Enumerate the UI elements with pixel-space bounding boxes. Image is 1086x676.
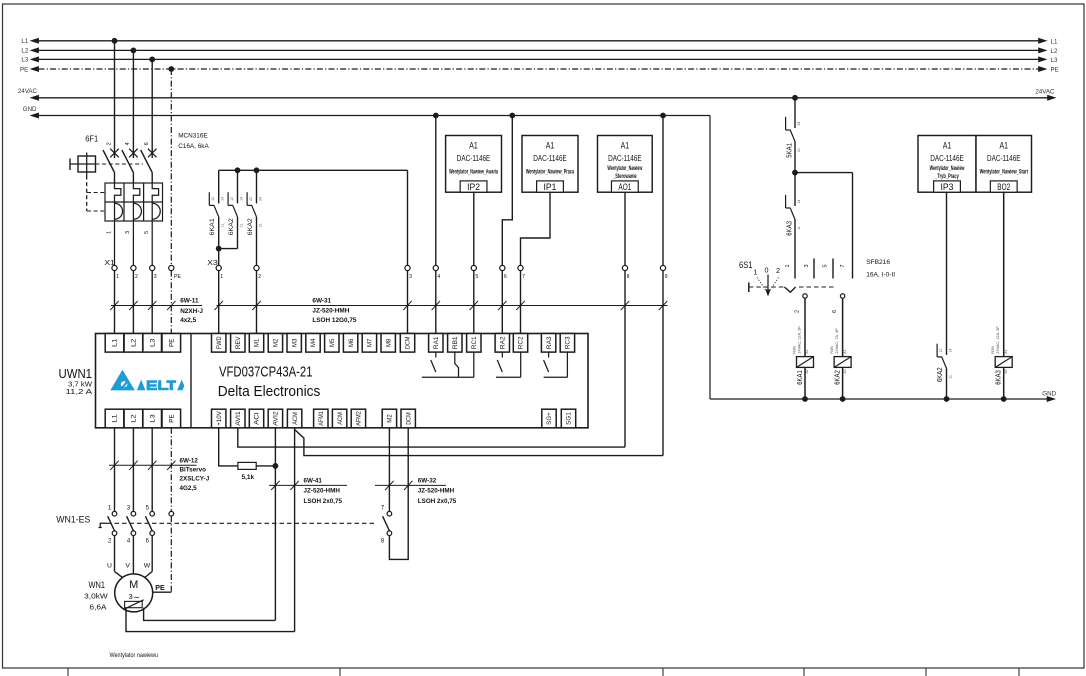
svg-text:M6: M6 [349,338,355,347]
svg-text:6S1: 6S1 [739,260,753,270]
svg-text:Wentylator_Nawiew_Start: Wentylator_Nawiew_Start [980,170,1028,176]
svg-text:6: 6 [144,142,150,145]
svg-text:RA1: RA1 [434,336,440,349]
svg-text:AO1: AO1 [618,182,631,193]
svg-text:0: 0 [765,266,769,275]
svg-text:PE: PE [155,585,165,592]
svg-text:Wentylator_Nawiew: Wentylator_Nawiew [607,166,642,172]
svg-text:1: 1 [220,274,223,280]
svg-text:12: 12 [939,349,943,353]
svg-text:SG+: SG+ [547,412,553,425]
svg-text:A1: A1 [843,349,847,353]
svg-text:SG1: SG1 [567,412,573,425]
svg-text:M1: M1 [255,338,261,347]
svg-text:6KA3: 6KA3 [785,221,794,236]
svg-text:Wentylator nawiewu: Wentylator nawiewu [110,653,159,659]
svg-text:2XSLCY-J: 2XSLCY-J [180,476,210,483]
svg-text:DCM: DCM [406,337,412,350]
svg-text:11: 11 [797,226,801,230]
svg-text:5,1k: 5,1k [242,474,255,481]
svg-text:A1: A1 [621,140,630,151]
svg-text:RC2: RC2 [519,336,525,349]
svg-text:6KA1: 6KA1 [795,370,804,385]
svg-text:6KA2: 6KA2 [935,367,944,382]
svg-text:Wentylator_Nawiew: Wentylator_Nawiew [930,166,965,172]
svg-text:3: 3 [409,274,412,280]
svg-text:JZ-520-HMH: JZ-520-HMH [418,488,455,495]
svg-text:AFM1: AFM1 [319,411,325,426]
svg-text:AFM2: AFM2 [357,411,363,426]
svg-text:V: V [125,563,130,570]
svg-text:R2N: R2N [991,346,995,354]
svg-text:PE: PE [174,274,181,280]
svg-text:4: 4 [437,274,440,280]
svg-text:6KA3: 6KA3 [994,370,1003,385]
svg-text:MCN316E: MCN316E [178,133,207,140]
svg-text:RA2: RA2 [501,336,507,349]
svg-text:6KA2: 6KA2 [228,218,235,235]
svg-text:AVI1: AVI1 [236,410,242,425]
svg-text:LSOH 12G0,75: LSOH 12G0,75 [312,317,356,324]
svg-text:6W-12: 6W-12 [180,457,199,464]
svg-text:5: 5 [475,274,478,280]
svg-text:GND: GND [1042,390,1056,397]
svg-text:7: 7 [522,274,525,280]
svg-text:L1: L1 [21,38,28,45]
svg-text:1: 1 [785,264,791,267]
svg-text:5: 5 [144,231,150,234]
svg-text:M: M [129,579,138,591]
svg-text:A1: A1 [805,349,809,353]
svg-text:5KA1: 5KA1 [785,143,794,158]
svg-text:6KA2: 6KA2 [247,218,254,235]
svg-text:6F1: 6F1 [85,134,98,144]
svg-text:C16A, 6kA: C16A, 6kA [178,143,209,150]
svg-text:R4N: R4N [830,346,834,354]
svg-text:2: 2 [258,274,261,280]
svg-text:24: 24 [259,197,263,201]
svg-text:24VAC, 7A, 4P: 24VAC, 7A, 4P [835,328,839,354]
svg-text:24VAC, 12A, 2P: 24VAC, 12A, 2P [797,326,801,354]
svg-text:14: 14 [949,349,953,353]
svg-text:Wentylator_Nawiew_Praca: Wentylator_Nawiew_Praca [526,170,575,176]
svg-text:L1: L1 [1051,38,1058,45]
svg-text:4: 4 [125,142,131,145]
svg-text:IP2: IP2 [467,182,480,193]
svg-text:6KA2: 6KA2 [833,370,842,385]
svg-text:A1: A1 [943,140,952,151]
svg-text:L3: L3 [21,57,28,64]
svg-text:12: 12 [230,197,234,201]
svg-text:3: 3 [804,264,810,267]
svg-text:11,2 A: 11,2 A [66,389,93,396]
svg-text:BiTservo: BiTservo [180,467,207,474]
svg-text:IP1: IP1 [544,182,557,193]
svg-text:DCM: DCM [406,412,412,425]
svg-text:1: 1 [116,274,119,280]
svg-text:A2: A2 [1004,369,1008,373]
svg-text:REV: REV [236,337,242,350]
svg-text:14: 14 [221,197,225,201]
svg-text:A1: A1 [546,140,555,151]
svg-text:PE: PE [1051,67,1059,74]
svg-text:L3: L3 [1051,57,1058,64]
svg-text:LSOH 2x0,75: LSOH 2x0,75 [418,498,457,505]
svg-text:24VAC: 24VAC [18,88,38,95]
svg-text:L3: L3 [150,413,156,422]
svg-text:M7: M7 [368,338,374,347]
svg-text:RC3: RC3 [566,336,572,349]
svg-text:PE: PE [20,66,28,73]
svg-text:A1: A1 [1000,140,1009,151]
svg-text:16A, I-0-II: 16A, I-0-II [866,272,895,279]
svg-text:UWN1: UWN1 [59,366,93,381]
svg-text:U: U [107,563,112,570]
svg-text:WN1: WN1 [89,580,106,591]
svg-text:RB1: RB1 [453,336,459,349]
svg-text:9: 9 [665,274,668,280]
svg-text:_Tryb_Pracy: _Tryb_Pracy [935,174,960,180]
svg-text:L2: L2 [132,413,138,422]
svg-text:M8: M8 [386,338,392,347]
svg-text:3,7 kW: 3,7 kW [68,381,92,388]
svg-text:3: 3 [125,231,131,234]
svg-text:JZ-520-HMH: JZ-520-HMH [304,488,341,495]
svg-text:AVI2: AVI2 [274,410,280,425]
svg-text:BO2: BO2 [997,182,1010,193]
svg-text:6W-31: 6W-31 [312,298,331,305]
svg-text:21: 21 [797,148,801,152]
svg-text:A2: A2 [843,369,847,373]
svg-text:24VAC, 12A, 2P: 24VAC, 12A, 2P [996,326,1000,354]
svg-text:6,6A: 6,6A [90,605,107,612]
svg-text:IP3: IP3 [941,182,954,193]
svg-text:3: 3 [154,274,157,280]
svg-text:L2: L2 [21,48,28,55]
svg-text:Wentylator_Nawiew_Awaria: Wentylator_Nawiew_Awaria [449,170,498,176]
svg-text:54: 54 [797,122,801,126]
svg-text:M4: M4 [311,338,317,347]
svg-text:22: 22 [249,197,253,201]
svg-text:PE: PE [170,339,176,347]
svg-text:VFD037CP43A-21: VFD037CP43A-21 [219,364,313,381]
svg-text:1: 1 [106,231,112,234]
svg-text:21: 21 [259,223,263,227]
svg-text:4x2,5: 4x2,5 [180,317,196,324]
svg-text:_Sterowanie: _Sterowanie [612,174,637,180]
svg-text:6W-32: 6W-32 [418,477,437,484]
svg-text:PE: PE [170,414,176,422]
svg-text:WN1-ES: WN1-ES [56,514,90,525]
svg-text:R2N: R2N [793,346,797,354]
svg-text:FWD: FWD [217,336,223,349]
svg-text:N2XH-J: N2XH-J [180,308,203,315]
svg-text:DAC-1146E: DAC-1146E [930,154,964,163]
svg-text:L3: L3 [150,338,156,347]
svg-text:6: 6 [832,310,838,313]
svg-text:L1: L1 [113,413,119,422]
svg-text:RA3: RA3 [547,336,553,349]
svg-text:M2: M2 [274,338,280,347]
svg-text:LSOH 2x0,75: LSOH 2x0,75 [304,498,343,505]
svg-text:6KA1: 6KA1 [209,218,216,235]
svg-text:DAC-1146E: DAC-1146E [533,154,567,163]
svg-text:6: 6 [504,274,507,280]
svg-text:DAC-1146E: DAC-1146E [457,154,491,163]
svg-text:14: 14 [797,200,801,204]
svg-text:M3: M3 [292,338,298,347]
svg-text:2: 2 [776,266,780,275]
svg-text:12: 12 [211,197,215,201]
svg-text:ACI: ACI [255,412,261,425]
svg-text:L2: L2 [132,338,138,347]
svg-text:DAC-1146E: DAC-1146E [987,154,1021,163]
svg-text:5: 5 [822,264,828,267]
svg-text:JZ-520-HMH: JZ-520-HMH [312,308,349,315]
svg-text:8: 8 [627,274,630,280]
svg-text:Delta Electronics: Delta Electronics [218,384,320,400]
svg-text:3,0kW: 3,0kW [84,594,108,601]
svg-text:RC1: RC1 [472,336,478,349]
svg-text:11: 11 [240,224,244,228]
svg-text:ACM: ACM [293,412,299,425]
svg-text:2: 2 [135,274,138,280]
svg-text:4G2,5: 4G2,5 [180,485,198,492]
svg-text:A1: A1 [1004,349,1008,353]
svg-text:M5: M5 [330,338,336,347]
svg-text:14: 14 [240,197,244,201]
svg-text:6W-41: 6W-41 [304,477,323,484]
svg-text:L2: L2 [1051,48,1058,55]
svg-text:11: 11 [949,375,953,379]
svg-text:SFB216: SFB216 [866,259,890,266]
svg-text:11: 11 [221,224,225,228]
svg-text:24VAC: 24VAC [1035,89,1055,96]
svg-text:GND: GND [23,106,37,113]
svg-text:L1: L1 [113,338,119,347]
svg-text:+10V: +10V [217,411,223,426]
svg-text:2: 2 [106,142,112,145]
svg-text:∼: ∼ [133,592,140,602]
svg-text:2: 2 [794,310,800,313]
svg-text:DAC-1146E: DAC-1146E [608,154,642,163]
svg-text:A1: A1 [469,140,478,151]
svg-text:M2: M2 [388,414,394,423]
svg-text:ACM: ACM [338,412,344,425]
svg-text:A2: A2 [805,369,809,373]
svg-text:W: W [144,563,151,570]
svg-text:7: 7 [840,264,846,267]
svg-text:6W-11: 6W-11 [180,298,199,305]
svg-text:1: 1 [754,268,758,277]
